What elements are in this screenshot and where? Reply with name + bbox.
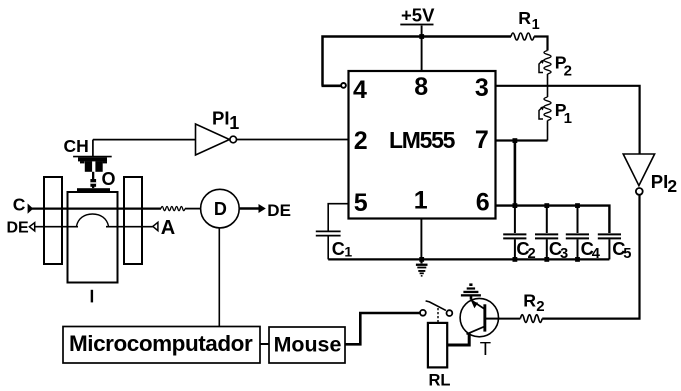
svg-text:O: O xyxy=(102,169,116,189)
svg-text:DE: DE xyxy=(267,201,291,220)
svg-text:5: 5 xyxy=(354,189,368,217)
svg-text:C: C xyxy=(13,195,26,215)
svg-text:1: 1 xyxy=(229,113,239,133)
svg-text:R: R xyxy=(518,8,531,28)
svg-text:2: 2 xyxy=(354,127,368,155)
svg-text:+5V: +5V xyxy=(401,5,435,26)
svg-text:CH: CH xyxy=(64,136,89,156)
svg-text:2: 2 xyxy=(667,176,677,196)
svg-text:LM555: LM555 xyxy=(389,127,456,153)
svg-text:Microcomputador: Microcomputador xyxy=(69,331,253,356)
svg-text:A: A xyxy=(161,217,175,239)
svg-text:R: R xyxy=(523,290,536,310)
svg-text:D: D xyxy=(214,199,227,219)
svg-text:T: T xyxy=(480,338,491,359)
svg-text:2: 2 xyxy=(536,298,544,315)
svg-text:PI: PI xyxy=(212,108,229,129)
svg-text:4: 4 xyxy=(592,246,601,262)
svg-text:3: 3 xyxy=(560,246,568,262)
svg-text:C: C xyxy=(332,239,345,259)
svg-text:2: 2 xyxy=(564,62,572,79)
svg-text:3: 3 xyxy=(475,74,489,102)
svg-text:6: 6 xyxy=(476,188,490,216)
svg-text:4: 4 xyxy=(353,76,367,104)
svg-text:1: 1 xyxy=(414,186,428,214)
svg-text:1: 1 xyxy=(344,244,352,260)
svg-text:PI: PI xyxy=(651,171,668,192)
svg-text:7: 7 xyxy=(475,126,489,154)
svg-text:1: 1 xyxy=(564,110,572,127)
svg-text:2: 2 xyxy=(528,246,536,262)
svg-text:5: 5 xyxy=(623,246,631,262)
svg-text:DE: DE xyxy=(7,220,30,237)
svg-text:1: 1 xyxy=(532,17,540,33)
svg-text:8: 8 xyxy=(414,73,428,101)
svg-text:Mouse: Mouse xyxy=(274,332,342,356)
svg-text:RL: RL xyxy=(429,371,451,389)
